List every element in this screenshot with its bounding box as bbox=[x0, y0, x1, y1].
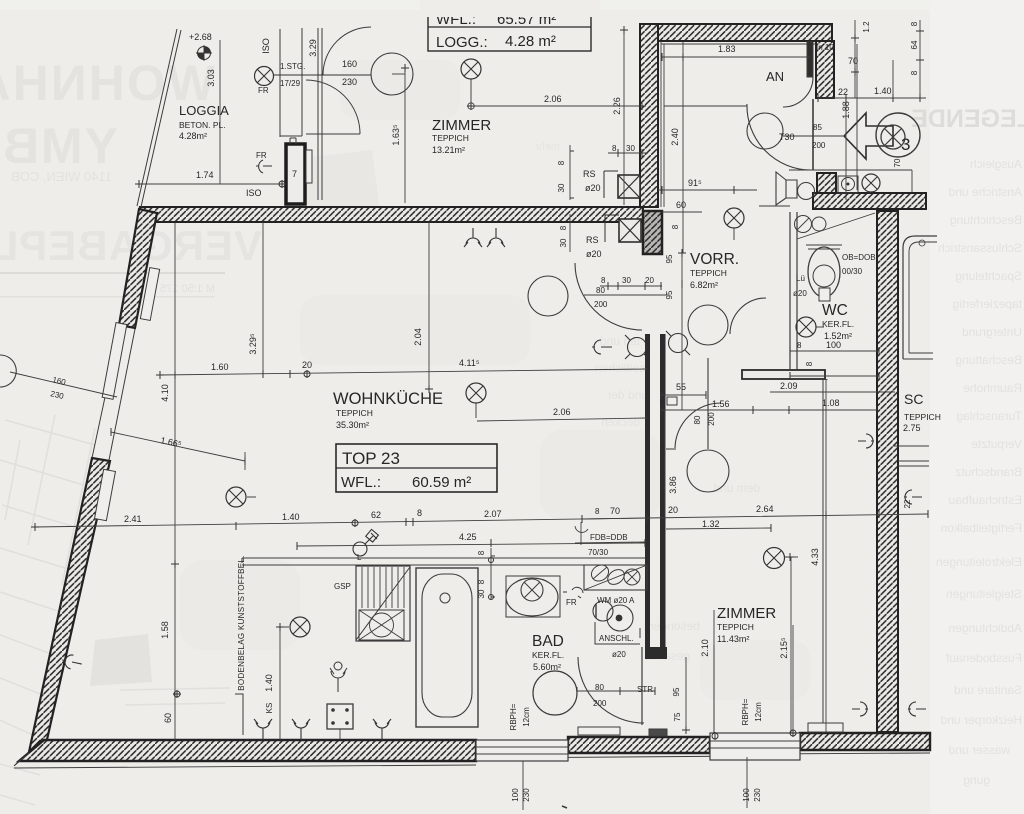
svg-text:230: 230 bbox=[522, 788, 531, 802]
neighbour bathtub right of party wall bbox=[903, 236, 937, 359]
svg-text:ANSCHL.: ANSCHL. bbox=[599, 634, 634, 643]
kitchen counter lines bbox=[242, 558, 645, 565]
dim tick node group 15 bbox=[661, 406, 877, 414]
svg-text:Abdichtungen: Abdichtungen bbox=[949, 621, 1022, 635]
svg-text:1.2: 1.2 bbox=[862, 21, 871, 33]
sill rect above ZIMMER window bbox=[808, 723, 843, 732]
svg-text:35.30m²: 35.30m² bbox=[336, 420, 369, 430]
svg-text:STR: STR bbox=[637, 685, 653, 694]
svg-text:3.29: 3.29 bbox=[308, 39, 318, 57]
dim row 1.32 bbox=[666, 528, 771, 529]
svg-text:8: 8 bbox=[477, 550, 486, 555]
lamp WC bbox=[796, 317, 824, 337]
entry door leaf line bbox=[812, 99, 814, 170]
svg-text:6.82m²: 6.82m² bbox=[690, 280, 718, 290]
ceiling light circle VORR lower bbox=[687, 450, 729, 492]
svg-text:200: 200 bbox=[593, 699, 607, 708]
svg-text:3.03: 3.03 bbox=[206, 69, 216, 87]
lamp ZIMMER top bbox=[461, 59, 481, 102]
show-through mirrored title WOHNHA bbox=[0, 55, 215, 111]
svg-text:20: 20 bbox=[302, 360, 312, 370]
dim tick node group 12 bbox=[608, 282, 661, 290]
svg-text:GSP: GSP bbox=[334, 582, 351, 591]
interior wall M double dark bars bbox=[645, 334, 667, 659]
svg-text:RS: RS bbox=[586, 235, 599, 245]
svg-text:ZIMMER: ZIMMER bbox=[717, 605, 776, 622]
svg-text:60: 60 bbox=[163, 713, 173, 723]
svg-text:WC: WC bbox=[822, 302, 848, 319]
bottom wall I band (between windows) bbox=[568, 737, 710, 753]
svg-text:wasser und: wasser und bbox=[949, 743, 1011, 757]
dim vertical 2.10 bbox=[713, 610, 715, 645]
svg-text:95: 95 bbox=[665, 290, 674, 299]
svg-text:WOHNKÜCHE: WOHNKÜCHE bbox=[333, 390, 443, 408]
svg-text:30: 30 bbox=[559, 238, 568, 247]
room label LOGGIA bbox=[179, 103, 229, 141]
dim tick node group 24 bbox=[276, 623, 284, 631]
entry box with dot bbox=[838, 176, 858, 193]
svg-text:8: 8 bbox=[477, 579, 486, 584]
sill rect above BAD window bbox=[578, 727, 620, 735]
BAD door swing arc bbox=[578, 657, 644, 723]
bottom wall J band right bbox=[800, 733, 930, 750]
dim row 60 bbox=[662, 211, 702, 213]
svg-text:mehr: mehr bbox=[535, 141, 560, 153]
ceiling light circle WOHNKUECHE bbox=[528, 276, 568, 316]
svg-text:M 1:50 175: M 1:50 175 bbox=[160, 283, 215, 295]
BAD boiler circle bbox=[533, 671, 577, 715]
lamp FR loggia bbox=[255, 67, 372, 86]
svg-text:3.86: 3.86 bbox=[668, 476, 678, 494]
svg-text:ø20: ø20 bbox=[585, 183, 601, 193]
dim tick node group 10 bbox=[662, 186, 738, 194]
show-through grey trapezoid blob bbox=[90, 634, 152, 686]
show-through ruled line bbox=[0, 272, 225, 274]
svg-text:RBPH=: RBPH= bbox=[509, 703, 518, 730]
svg-text:KER.FL.: KER.FL. bbox=[532, 650, 564, 660]
svg-text:1.40: 1.40 bbox=[264, 674, 274, 692]
svg-text:+2.68: +2.68 bbox=[189, 32, 212, 42]
svg-text:60: 60 bbox=[676, 200, 686, 210]
register square RS upper bbox=[604, 171, 640, 198]
line from corner circle to wall 160/230 bbox=[10, 372, 117, 397]
wall W7 right vertical party wall bbox=[877, 211, 898, 732]
svg-text:3: 3 bbox=[901, 135, 910, 154]
WC left wall double line bbox=[790, 212, 797, 370]
svg-text:ten und: ten und bbox=[600, 334, 640, 348]
dim tick node group 3 bbox=[401, 64, 409, 72]
dim texts rotated bbox=[206, 69, 216, 87]
wall W4 corner at AN right bbox=[816, 41, 834, 98]
svg-text:WM ø20 A: WM ø20 A bbox=[597, 596, 635, 605]
svg-text:1.32: 1.32 bbox=[702, 519, 720, 529]
room label BAD bbox=[532, 633, 564, 672]
BAD washbasin crossed circle bbox=[521, 579, 543, 601]
dim row kitchen 2.41/1.40/62/8/2.07 bbox=[35, 518, 647, 527]
dim tick node group 21 bbox=[297, 539, 645, 550]
show-through floor mesh bottom-left bbox=[0, 415, 230, 805]
bathtub drain bbox=[440, 593, 450, 603]
GSP diagonal bbox=[356, 567, 410, 640]
AN door swing arc bbox=[783, 77, 813, 107]
svg-text:7: 7 bbox=[292, 169, 297, 179]
dim tick node group 14 bbox=[661, 391, 706, 399]
ceiling light circle entry bbox=[747, 113, 783, 149]
dim tick node group 30 bbox=[425, 385, 433, 393]
svg-text:80: 80 bbox=[595, 683, 604, 692]
dim row VORR 8-30-20 bbox=[584, 286, 667, 295]
BAD left boundary line bbox=[409, 565, 411, 641]
svg-text:TEPPICH: TEPPICH bbox=[717, 622, 754, 632]
dim row 1.60/20/4.11 bbox=[160, 369, 647, 375]
svg-text:95: 95 bbox=[672, 687, 681, 696]
svg-text:T30: T30 bbox=[779, 132, 795, 142]
svg-text:Fertigteilbalkon: Fertigteilbalkon bbox=[941, 521, 1022, 535]
svg-text:tapezierfertig: tapezierfertig bbox=[953, 297, 1022, 311]
socket near BAD vanity bbox=[563, 587, 583, 598]
AN door leaf dark rect bbox=[807, 42, 813, 77]
dim vertical 2.26 bbox=[623, 30, 625, 205]
svg-text:70: 70 bbox=[848, 56, 858, 66]
WC toilet bbox=[806, 245, 842, 301]
svg-text:1140 WIEN, COB: 1140 WIEN, COB bbox=[11, 169, 112, 184]
BAD vanity rect bbox=[506, 576, 560, 617]
dim row 2.09 bbox=[770, 391, 895, 393]
AN room boundary lines bbox=[661, 41, 664, 207]
dim vertical 3.86/20 bbox=[664, 410, 666, 517]
dim row WC 8 bbox=[790, 375, 879, 377]
svg-text:Turanschlag: Turanschlag bbox=[956, 409, 1022, 423]
dim BAD door 80/200 STR bbox=[577, 690, 655, 692]
LOGG box top bbox=[420, 0, 600, 51]
plot boundary line bottom bbox=[14, 765, 476, 768]
room label ZIMMER bottom bbox=[717, 605, 776, 644]
svg-text:85: 85 bbox=[813, 123, 822, 132]
svg-text:30: 30 bbox=[626, 144, 635, 153]
svg-text:95: 95 bbox=[665, 254, 674, 263]
GSP unit outer bbox=[356, 566, 410, 641]
svg-text:91⁵: 91⁵ bbox=[688, 178, 702, 188]
dim tick node group 2 bbox=[467, 102, 475, 110]
svg-text:12cm: 12cm bbox=[754, 702, 763, 722]
svg-text:30: 30 bbox=[557, 183, 566, 192]
lamp left wall WOHNKUECHE bbox=[226, 487, 256, 507]
door post rect VORR/ZIMMER bbox=[667, 397, 677, 405]
svg-text:30: 30 bbox=[622, 276, 631, 285]
lamp entry corridor bbox=[862, 174, 880, 192]
svg-text:L: L bbox=[357, 553, 362, 562]
socket symbols near VORR door bbox=[592, 331, 690, 359]
svg-text:seitlichen: seitlichen bbox=[595, 361, 645, 375]
DA outlet kitchen bbox=[330, 662, 347, 692]
svg-text:230: 230 bbox=[342, 77, 357, 87]
svg-text:KS: KS bbox=[265, 703, 274, 714]
show-through mirrored LEGENDE bbox=[911, 105, 1024, 133]
show-through small line bbox=[11, 169, 112, 184]
socket left of loggia stub FR bbox=[256, 160, 272, 173]
svg-text:AN: AN bbox=[766, 69, 784, 84]
loggia door leaf line bbox=[306, 133, 360, 135]
door VORR to ZIMMER swing arc bbox=[675, 403, 721, 448]
dim row 1.83 bbox=[662, 56, 810, 58]
ceiling outlet symbols below top wall bbox=[464, 228, 505, 247]
window extension lines below bbox=[523, 757, 747, 810]
svg-text:2.40: 2.40 bbox=[670, 128, 680, 146]
dim tick node group 7 bbox=[818, 94, 920, 102]
svg-text:OB=DOB: OB=DOB bbox=[842, 253, 876, 262]
svg-text:2.41: 2.41 bbox=[124, 514, 142, 524]
entry speaker trapezoid bbox=[776, 172, 815, 205]
room label SC bbox=[903, 391, 941, 433]
svg-text:3.29⁵: 3.29⁵ bbox=[248, 333, 258, 355]
ZIMMER/BAD boundary verticals bbox=[713, 645, 715, 733]
svg-text:2.04: 2.04 bbox=[413, 328, 423, 346]
dim tick node group 27 bbox=[682, 726, 690, 734]
svg-text:Spachtelung: Spachtelung bbox=[955, 269, 1022, 283]
svg-text:100: 100 bbox=[511, 788, 520, 802]
window panel P1 on diagonal wall bbox=[140, 268, 159, 321]
svg-text:70: 70 bbox=[893, 158, 902, 167]
svg-text:RBPH=: RBPH= bbox=[741, 698, 750, 725]
FDB symbol bracket bbox=[575, 522, 645, 545]
svg-text:Anstriche und: Anstriche und bbox=[949, 185, 1022, 199]
svg-text:Elektroleitungen: Elektroleitungen bbox=[936, 555, 1022, 569]
entrance block arrow bbox=[844, 113, 893, 159]
dim tick node group 11 bbox=[570, 149, 642, 198]
dim tick node group 20 bbox=[647, 510, 928, 532]
door WOHNKUECHE to VORR swing arc bbox=[575, 263, 642, 330]
bathtub outer bbox=[416, 568, 478, 727]
dim vertical 2.40 bbox=[682, 42, 684, 253]
entry corridor boundary line bbox=[789, 170, 912, 192]
dim tick node group 26 bbox=[786, 553, 794, 561]
svg-text:80: 80 bbox=[693, 415, 702, 424]
WM cabinet with ovals bbox=[584, 562, 647, 590]
dim tick node group 8 bbox=[851, 31, 924, 76]
loggia stair vertical lines bbox=[280, 28, 322, 200]
lower diagonal continuation to plot corner bbox=[14, 753, 29, 766]
door leaf VORR/ZIMMER bbox=[666, 358, 708, 449]
register square RS lower bbox=[605, 215, 641, 242]
svg-text:200: 200 bbox=[707, 412, 716, 426]
svg-text:2.64: 2.64 bbox=[756, 504, 774, 514]
svg-text:1.63⁵: 1.63⁵ bbox=[391, 124, 401, 146]
window opening 2 sill rects bbox=[710, 733, 800, 760]
dim vertical 3.03 bbox=[219, 40, 221, 184]
svg-text:8: 8 bbox=[417, 508, 422, 518]
room label WC bbox=[822, 302, 854, 341]
diagonal wall K1 upper hatched segment bbox=[119, 209, 157, 328]
svg-text:4.25: 4.25 bbox=[459, 532, 477, 542]
svg-text:FDB=DDB: FDB=DDB bbox=[590, 533, 628, 542]
dim row 1.56/1.08 bbox=[661, 409, 877, 411]
dim vertical 3.29 bbox=[262, 222, 264, 374]
svg-text:1.58: 1.58 bbox=[160, 621, 170, 639]
svg-text:75: 75 bbox=[673, 712, 682, 721]
svg-text:In 10: In 10 bbox=[816, 43, 834, 52]
svg-text:8: 8 bbox=[595, 507, 600, 516]
dim tick node group 19 bbox=[352, 520, 358, 526]
dim vertical 1.63 bbox=[404, 68, 406, 203]
dim vertical 4.33 bbox=[825, 379, 827, 733]
ANSCHL bracket bbox=[595, 622, 640, 644]
svg-text:8: 8 bbox=[797, 341, 802, 350]
svg-text:70/30: 70/30 bbox=[588, 548, 609, 557]
room label VORR bbox=[690, 251, 739, 290]
dim tick node group 9 bbox=[678, 249, 686, 288]
svg-text:8: 8 bbox=[805, 361, 814, 366]
dim tick node group 1 bbox=[638, 102, 646, 110]
window panel P3 lower bbox=[95, 469, 116, 520]
svg-text:2.15⁵: 2.15⁵ bbox=[779, 637, 789, 659]
ISO panel beside stub wall bbox=[306, 150, 312, 183]
svg-text:2.75: 2.75 bbox=[903, 423, 921, 433]
svg-text:Ausgleich: Ausgleich bbox=[970, 157, 1022, 171]
svg-text:2.06: 2.06 bbox=[553, 407, 571, 417]
room label WOHNKUECHE bbox=[333, 390, 443, 430]
svg-text:70: 70 bbox=[610, 506, 620, 516]
svg-text:Heizkorper und: Heizkorper und bbox=[941, 713, 1022, 727]
svg-text:gung: gung bbox=[963, 773, 990, 787]
svg-text:VORR.: VORR. bbox=[690, 251, 739, 268]
svg-text:Beschattung: Beschattung bbox=[955, 353, 1022, 367]
svg-text:Verputzte: Verputzte bbox=[971, 437, 1022, 451]
svg-text:22: 22 bbox=[903, 499, 912, 508]
BAD door leaf line bbox=[641, 647, 643, 725]
dim tick node group 29 bbox=[714, 732, 716, 740]
svg-text:4.33: 4.33 bbox=[810, 548, 820, 566]
dim vertical kitchen KS 1.40 bbox=[279, 627, 281, 740]
svg-text:8: 8 bbox=[910, 70, 919, 75]
GSP lower square with basin bbox=[359, 610, 404, 640]
svg-text:KER.FL.: KER.FL. bbox=[822, 319, 854, 329]
corner circle bottom-left boundary bbox=[0, 355, 16, 387]
entrance big double circle with lamp bbox=[876, 113, 920, 157]
svg-text:20: 20 bbox=[645, 276, 654, 285]
dim vertical chain VORR 95/95 bbox=[681, 253, 683, 410]
svg-text:und der: und der bbox=[607, 388, 648, 402]
dim row WC 100 bbox=[790, 350, 879, 352]
svg-text:1.88: 1.88 bbox=[841, 101, 851, 119]
svg-text:Sanitare und: Sanitare und bbox=[954, 683, 1022, 697]
svg-text:80: 80 bbox=[596, 286, 605, 295]
svg-text:ø20: ø20 bbox=[586, 249, 602, 259]
ceiling light circle VORR upper bbox=[688, 305, 728, 345]
show-through mirrored title UMBERG bbox=[0, 118, 118, 174]
svg-text:60.59 m²: 60.59 m² bbox=[412, 474, 471, 491]
sockets on party wall SC side bbox=[858, 434, 922, 504]
dim tick node group 23 bbox=[171, 371, 181, 698]
svg-text:1.08: 1.08 bbox=[822, 398, 840, 408]
dim vertical 2.15 bbox=[792, 625, 794, 733]
svg-text:100: 100 bbox=[826, 340, 841, 350]
svg-text:Brandschutz: Brandschutz bbox=[955, 465, 1022, 479]
svg-text:30: 30 bbox=[477, 589, 486, 598]
dim vertical 1.88 bbox=[846, 44, 857, 200]
dim row 4.25 bbox=[297, 543, 645, 546]
stove square with dots bbox=[327, 704, 353, 740]
svg-text:4.28 m²: 4.28 m² bbox=[505, 33, 556, 50]
BAD washbasin oval bbox=[506, 578, 558, 616]
svg-text:2.10: 2.10 bbox=[700, 639, 710, 657]
svg-text:LOGGIA: LOGGIA bbox=[179, 103, 229, 118]
room label ZIMMER top bbox=[432, 117, 491, 155]
svg-text:BETON. PL.: BETON. PL. bbox=[179, 120, 226, 130]
entry door swing arc bbox=[747, 104, 811, 170]
svg-text:Steigleitungen: Steigleitungen bbox=[946, 587, 1022, 601]
svg-text:2.06: 2.06 bbox=[544, 94, 562, 104]
svg-text:1.60: 1.60 bbox=[211, 362, 229, 372]
svg-text:ISO: ISO bbox=[246, 188, 262, 198]
svg-text:YMBERG: YMBERG bbox=[0, 118, 118, 174]
dim vertical 8-64-8 bbox=[893, 20, 920, 98]
loggia door upper swing arc bbox=[323, 27, 371, 75]
WC bottom wall N bbox=[742, 370, 825, 379]
window panel P2 loggia door bbox=[102, 323, 127, 400]
dim tick node group 6 bbox=[662, 53, 683, 61]
svg-text:FR: FR bbox=[566, 598, 577, 607]
svg-text:besonders: besonders bbox=[644, 619, 700, 633]
svg-text:8: 8 bbox=[601, 276, 606, 285]
wall W8 corner block below W2 bbox=[643, 211, 662, 254]
svg-text:22: 22 bbox=[838, 87, 848, 97]
WC door swing arc bbox=[730, 298, 766, 334]
dim tick node group 32 bbox=[577, 687, 655, 695]
svg-text:1.40: 1.40 bbox=[282, 512, 300, 522]
dim vertical 70 bbox=[854, 20, 856, 98]
TOP 23 box bbox=[336, 444, 497, 492]
svg-text:200: 200 bbox=[594, 300, 608, 309]
socket on diagonal wall lower bbox=[61, 653, 83, 671]
svg-text:1.83: 1.83 bbox=[718, 44, 736, 54]
svg-text:Untergrund: Untergrund bbox=[962, 325, 1022, 339]
svg-text:13.21m²: 13.21m² bbox=[432, 145, 465, 155]
wall W1 top band of WOHNKUECHE/ZIMMER bbox=[140, 207, 643, 222]
svg-text:5.60m²: 5.60m² bbox=[533, 662, 561, 672]
svg-text:8: 8 bbox=[557, 160, 566, 165]
show-through mirrored VERGABEPLAN bbox=[0, 222, 262, 269]
svg-text:TEPPICH: TEPPICH bbox=[432, 133, 469, 143]
svg-text:Beschichtung: Beschichtung bbox=[950, 213, 1022, 227]
svg-text:SC: SC bbox=[904, 391, 923, 407]
WM washing machine circles bbox=[593, 601, 633, 631]
svg-text:00/30: 00/30 bbox=[842, 267, 863, 276]
dim row 1.74 ISO bbox=[139, 183, 285, 185]
dim row 2.06 kueche bbox=[477, 418, 647, 421]
svg-text:1.STG.: 1.STG. bbox=[280, 62, 305, 71]
dim tick node group 13 bbox=[790, 347, 879, 380]
svg-text:ø20: ø20 bbox=[612, 650, 626, 659]
dark sill rect right of BAD door bbox=[649, 729, 667, 736]
diagonal wall K2 lower hatched segment bbox=[29, 458, 110, 752]
dim rows RS lower bbox=[569, 214, 571, 252]
lamp WOHNKUECHE centre bbox=[466, 383, 486, 418]
dim row 55 bbox=[661, 394, 706, 396]
dim tick node group 5 bbox=[278, 180, 286, 188]
svg-text:ø20: ø20 bbox=[793, 289, 807, 298]
svg-text:FR: FR bbox=[256, 151, 267, 160]
svg-text:TEPPICH: TEPPICH bbox=[690, 268, 727, 278]
svg-text:2.26: 2.26 bbox=[612, 97, 622, 115]
svg-text:8: 8 bbox=[910, 21, 919, 26]
dim rows RS upper bbox=[570, 145, 648, 200]
svg-text:FR: FR bbox=[258, 86, 269, 95]
wall W6 band between entry and WC bbox=[813, 193, 926, 209]
GSP vertical hatch bbox=[362, 567, 404, 608]
svg-text:100: 100 bbox=[742, 788, 751, 802]
svg-text:8: 8 bbox=[559, 225, 568, 230]
dim diagonal 1.66 bbox=[111, 432, 245, 470]
